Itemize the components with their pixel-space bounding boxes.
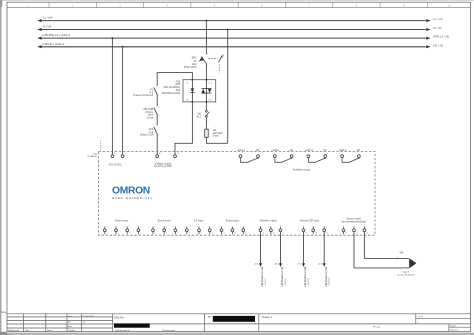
svg-text:-1M: -1M (322, 149, 326, 152)
wire 3PE-L3 bus (40, 37, 426, 39)
wire transfer 1 (260, 232, 262, 264)
wire triac out to connector (205, 102, 207, 111)
breaker link dashes (208, 57, 217, 59)
svg-text:10: 10 (447, 3, 451, 7)
svg-text:+A04.4: +A04.4 (317, 263, 323, 266)
svg-text:17: 17 (305, 232, 307, 234)
redaction bar 1 (114, 323, 150, 327)
svg-text:A1: A1 (159, 152, 161, 155)
svg-text:for driving SSR: for driving SSR (154, 164, 172, 168)
svg-text:Page 1/1: Page 1/1 (450, 329, 458, 331)
svg-text:=L-04: =L-04 (418, 316, 424, 318)
breaker pole 2 (219, 56, 222, 62)
svg-text:E1a: E1a (2, 310, 7, 314)
svg-text:22: 22 (366, 232, 368, 234)
svg-text:Name: Name (47, 330, 53, 332)
svg-text:-L1 / fu4: -L1 / fu4 (42, 16, 53, 20)
svg-text:3: 3 (129, 232, 130, 234)
svg-text:16: 16 (282, 232, 284, 234)
svg-text:3RF2050-1AA04: 3RF2050-1AA04 (162, 92, 181, 95)
svg-text:Technical dep.: Technical dep. (162, 330, 176, 332)
svg-text:U2: U2 (186, 100, 188, 102)
svg-text:U1: U1 (186, 82, 188, 84)
svg-text:+A04.1: +A04.1 (254, 263, 260, 266)
svg-text:24V AC/DC: 24V AC/DC (109, 162, 122, 166)
svg-text:Bew.: Bew. (68, 326, 73, 328)
svg-text:-W5: -W5 (399, 251, 404, 254)
sensor arrow (409, 258, 416, 268)
svg-text:+A04.3: +A04.3 (297, 263, 303, 266)
triac output (205, 80, 207, 102)
svg-text:+HB-3PE-L3 / +H01-2: +HB-3PE-L3 / +H01-2 (42, 33, 71, 37)
junction dots (111, 20, 228, 48)
svg-text:+W-Node4-L1-W: +W-Node4-L1-W (260, 266, 264, 287)
svg-text:7: 7 (177, 232, 178, 234)
svg-text:-1M: -1M (255, 149, 259, 152)
aux contact 2 (275, 158, 292, 163)
label type K (397, 271, 415, 276)
svg-text:Auxiliary output: Auxiliary output (293, 167, 311, 171)
svg-text:PT: PT (208, 316, 212, 319)
svg-text:5: 5 (155, 232, 156, 234)
svg-text:-3PE-L3 / (4): -3PE-L3 / (4) (433, 35, 450, 39)
svg-text:Event input: Event input (115, 219, 128, 223)
svg-text:(on-site Ni plated): (on-site Ni plated) (397, 273, 415, 276)
svg-text:1: 1 (158, 87, 159, 89)
wire N bus down right side (227, 30, 229, 144)
wire L1 to breaker (205, 21, 207, 55)
svg-text:Transfer output: Transfer output (259, 219, 277, 223)
svg-text:-C06: -C06 (92, 153, 98, 155)
svg-text:2: 2 (118, 232, 119, 234)
svg-text:(temperature/analog): (temperature/analog) (342, 219, 366, 223)
fuse F02 (154, 127, 157, 134)
svg-text:4: 4 (158, 114, 159, 116)
svg-text:E5EC-QX4D8M-011: E5EC-QX4D8M-011 (112, 196, 152, 200)
svg-text:Drawer 2.5A: Drawer 2.5A (140, 134, 154, 137)
wire control branch top corner (157, 73, 192, 86)
wire N bus (40, 29, 426, 31)
top terminals (111, 155, 176, 158)
svg-text:5-wat: 5-wat (213, 135, 219, 138)
svg-text:CT input: CT input (194, 219, 204, 223)
svg-text:15: 15 (273, 232, 275, 234)
wire from N2 bus to 24V terminal (122, 47, 124, 155)
wire resistor to N (206, 137, 227, 143)
svg-text:18: 18 (315, 232, 317, 234)
svg-text:1: 1 (114, 153, 115, 155)
aux contact 3 (308, 158, 325, 163)
svg-text:+A04-W2: +A04-W2 (284, 278, 287, 286)
svg-text:2: 2 (207, 121, 208, 123)
aux contact 4 (342, 158, 359, 163)
svg-text:Modification: Modification (8, 329, 20, 332)
svg-text:OMRON: OMRON (112, 185, 150, 196)
svg-text:Original: Original (68, 329, 76, 332)
SSR box (183, 80, 216, 102)
breaker trip dashed (218, 65, 220, 73)
diode input (191, 80, 193, 102)
wire remote 1 (303, 232, 305, 264)
svg-text:8: 8 (189, 232, 190, 234)
node arrows right (426, 19, 430, 22)
svg-text:+HB-N2 / +H01-4: +HB-N2 / +H01-4 (42, 42, 65, 46)
wire L1 bus (40, 20, 426, 22)
svg-text:Replacement of: Replacement of (115, 329, 130, 332)
svg-text:-N / (4): -N / (4) (433, 26, 442, 30)
svg-text:17.04.2013: 17.04.2013 (83, 316, 94, 318)
svg-text:+W-Node4-L3-W: +W-Node4-L3-W (303, 266, 307, 287)
wire N2 bus (40, 46, 426, 48)
page edge shadows (0, 0, 1, 335)
wire sensor lower (354, 232, 409, 268)
svg-text:+A04-2: +A04-2 (271, 149, 279, 152)
svg-text:-N / fu4: -N / fu4 (42, 25, 52, 29)
svg-text:9: 9 (201, 232, 202, 234)
svg-text:+A04-3: +A04-3 (305, 149, 313, 152)
svg-text:+A04-W3: +A04-W3 (307, 278, 310, 286)
svg-text:A1.2: A1.2 (196, 115, 202, 118)
wire breaker to SSR box (205, 64, 207, 80)
contact HB CMB (154, 107, 157, 114)
svg-text:Drawer-Control 0A: Drawer-Control 0A (133, 94, 153, 97)
svg-text:EPLAN: EPLAN (114, 315, 123, 319)
svg-text:+W-Node4-L4-W: +W-Node4-L4-W (324, 266, 328, 287)
svg-text:1/L1: 1/L1 (208, 82, 212, 84)
svg-text:12: 12 (234, 232, 236, 234)
svg-text:+A04-W4: +A04-W4 (328, 278, 331, 286)
svg-text:-L1 / (4): -L1 / (4) (433, 17, 443, 21)
svg-text:10: 10 (212, 232, 214, 234)
svg-text:2: 2 (207, 65, 208, 67)
svg-text:2: 2 (124, 153, 125, 155)
svg-text:3: 3 (158, 107, 159, 109)
redaction bar 2 (213, 316, 255, 322)
svg-text:+W-Node4-L2-W: +W-Node4-L2-W (280, 266, 284, 287)
svg-text:-N2 / (4): -N2 / (4) (433, 43, 444, 47)
svg-text:5TW CAT3: 5TW CAT3 (184, 65, 197, 69)
svg-text:4: 4 (140, 232, 141, 234)
svg-text:Ed.: Ed. (68, 321, 72, 323)
svg-text:1: 1 (158, 126, 159, 128)
svg-text:2: 2 (158, 94, 159, 96)
svg-text:EPL-04: EPL-04 (373, 327, 381, 329)
svg-text:A2: A2 (177, 152, 179, 155)
svg-text:Remote SP input: Remote SP input (300, 219, 320, 223)
wire from L3 bus to 24V terminal (111, 38, 113, 155)
node arrows left (37, 19, 41, 22)
svg-text:13: 13 (245, 232, 247, 234)
svg-text:+A04.2: +A04.2 (274, 263, 280, 266)
svg-text:Event input: Event input (158, 219, 171, 223)
svg-text:1: 1 (107, 232, 108, 234)
svg-text:(24 AWG): (24 AWG) (87, 155, 97, 158)
aux contact 1 (241, 158, 259, 163)
svg-text:20: 20 (345, 232, 347, 234)
wire SSR output A to terminal (175, 102, 192, 155)
breaker XF1 lever (201, 57, 206, 64)
svg-text:6: 6 (166, 232, 167, 234)
svg-text:-1M: -1M (289, 149, 293, 152)
wire transfer 3 (280, 232, 282, 264)
svg-text:1: 1 (207, 53, 208, 55)
svg-text:Page 1: Page 1 (450, 326, 456, 328)
svg-text:2/T1: 2/T1 (208, 100, 212, 102)
fuse F1 (154, 87, 157, 94)
svg-text:2: 2 (158, 134, 159, 136)
svg-text:1-pole: 1-pole (147, 116, 154, 119)
svg-text:+A04-4: +A04-4 (339, 149, 347, 152)
svg-text:21: 21 (356, 232, 358, 234)
svg-text:+A04-1: +A04-1 (237, 149, 245, 152)
svg-text:Type K: Type K (402, 271, 409, 273)
svg-text:11: 11 (223, 232, 225, 234)
wire control branch segments (156, 95, 158, 107)
svg-text:14: 14 (262, 232, 264, 234)
wire remote 3 (323, 232, 325, 264)
svg-text:-1M: -1M (356, 149, 360, 152)
wire connector to resistor (205, 117, 207, 129)
svg-text:+A04-W1: +A04-W1 (264, 278, 267, 286)
svg-text:Event input: Event input (226, 219, 239, 223)
svg-text:Header 1: Header 1 (262, 316, 273, 319)
zone strip (7, 7, 471, 9)
wire sensor upper (364, 232, 408, 259)
svg-text:19: 19 (326, 232, 328, 234)
